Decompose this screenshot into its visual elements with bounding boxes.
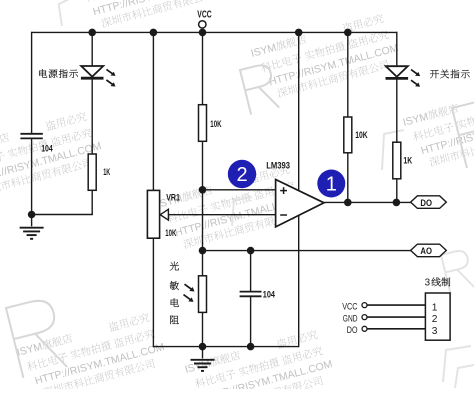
wire AO line [203, 250, 412, 252]
svg-text:GND: GND [343, 313, 358, 323]
wire VCC top rail [32, 31, 397, 33]
op-amp U1 LM393 [276, 180, 324, 227]
wire LED2 cathode to R4 [396, 79, 398, 142]
wire to op-amp non-inverting input [203, 189, 277, 191]
svg-text:10K: 10K [210, 119, 221, 129]
label 光敏电阻 [170, 262, 179, 271]
svg-text:1: 1 [326, 174, 337, 196]
svg-text:LM393: LM393 [266, 161, 290, 171]
resistor R3 10K [344, 117, 352, 153]
wire R4 bottom [396, 179, 398, 203]
wire left branch vertical [31, 32, 33, 134]
node junction R3 bottom [344, 199, 352, 207]
photoresistor GL 光敏电阻 [199, 276, 207, 313]
svg-text:3: 3 [432, 326, 438, 337]
wire divider node column [202, 141, 204, 275]
svg-text:10K: 10K [355, 130, 368, 140]
svg-text:104: 104 [263, 289, 276, 299]
capacitor C1 104 [20, 133, 42, 135]
potentiometer VR1 10K [147, 190, 159, 238]
wire pin1 VCC [367, 304, 425, 306]
wire VR1 top from rail [152, 32, 154, 190]
svg-text:DO: DO [420, 198, 432, 209]
wire pin2 GND [367, 316, 425, 318]
svg-text:1: 1 [432, 302, 438, 313]
wire pin3 DO [367, 328, 425, 330]
node junction C2 top [247, 247, 255, 255]
svg-text:1K: 1K [403, 156, 412, 166]
svg-text:DO: DO [347, 325, 358, 335]
wire R3 top [347, 32, 349, 117]
ground GND left [31, 215, 33, 227]
svg-text:3: 3 [425, 278, 431, 289]
node junction + input [199, 186, 207, 194]
port AO [411, 244, 447, 257]
node junction AO [199, 247, 207, 255]
resistor R1 10K [199, 105, 207, 142]
wire below C1 [31, 138, 33, 214]
callout marker 2 [228, 160, 256, 188]
svg-text:10K: 10K [165, 228, 176, 238]
svg-text:2: 2 [236, 164, 247, 186]
wire VR1 wiper to op-amp inverting input [168, 214, 276, 216]
resistor R4 1K [393, 142, 401, 179]
node junction LDR/ground [199, 343, 207, 351]
capacitor C2 104 [250, 251, 252, 291]
port DO [411, 196, 447, 209]
wire R3 bottom [347, 153, 349, 203]
callout marker 1 [317, 170, 345, 198]
node junction left ground [28, 211, 36, 219]
LED D1 power indicator [81, 66, 103, 77]
wire LED1 anode [91, 32, 93, 66]
svg-text:1K: 1K [103, 167, 110, 177]
node junction dots on VCC rail [88, 29, 96, 37]
label 电源指示 power indicator [39, 69, 47, 77]
svg-text:2: 2 [432, 314, 438, 325]
wire VR1 bottom to bottom rail [152, 238, 154, 347]
wire LDR bottom [202, 312, 204, 346]
label 开关指示 switch indicator [430, 70, 439, 78]
wire bottom rail [153, 346, 298, 348]
wire mid column from rail to R1 [202, 32, 204, 104]
wire R2 bottom to ground node [91, 190, 93, 214]
svg-text:VCC: VCC [197, 10, 211, 21]
node junction C2 bottom [247, 343, 255, 351]
wire LED1 cathode to R2 [91, 79, 93, 154]
svg-text:VR1: VR1 [166, 193, 180, 203]
svg-text:VCC: VCC [342, 302, 358, 312]
svg-text:AO: AO [420, 246, 432, 257]
wire op-amp output DO line [324, 201, 411, 203]
ground GND bottom [202, 347, 204, 359]
node junction R4 bottom [393, 199, 401, 207]
wire right branch down [396, 32, 398, 67]
wire op-amp supply vertical [298, 32, 300, 347]
LED D2 switch indicator [386, 66, 408, 77]
resistor R2 1K [88, 154, 96, 190]
svg-text:104: 104 [41, 144, 53, 154]
